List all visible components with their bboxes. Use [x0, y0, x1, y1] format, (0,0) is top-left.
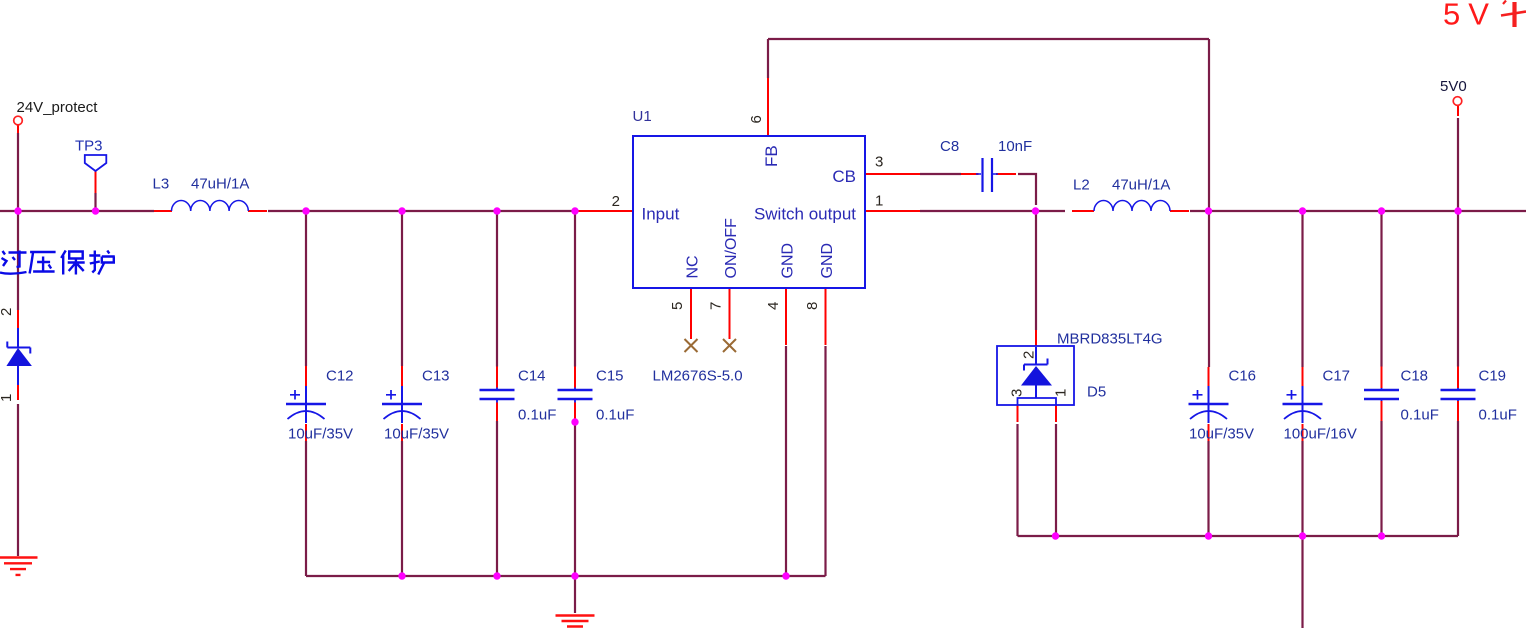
svg-text:47uH/1A: 47uH/1A — [191, 176, 249, 193]
svg-text:C15: C15 — [596, 368, 624, 385]
svg-text:47uH/1A: 47uH/1A — [1112, 177, 1170, 194]
svg-text:7: 7 — [708, 302, 725, 310]
svg-text:5V: 5V — [1443, 0, 1497, 32]
svg-text:C17: C17 — [1323, 368, 1351, 385]
svg-text:3: 3 — [1009, 389, 1026, 397]
svg-text:0.1uF: 0.1uF — [596, 407, 634, 424]
svg-text:GND: GND — [819, 243, 836, 279]
svg-text:6: 6 — [748, 115, 765, 123]
svg-text:L3: L3 — [153, 176, 170, 193]
svg-text:GND: GND — [780, 243, 797, 279]
svg-text:1: 1 — [875, 193, 883, 210]
svg-text:NC: NC — [685, 255, 702, 278]
svg-text:C14: C14 — [518, 368, 546, 385]
svg-text:100uF/16V: 100uF/16V — [1284, 426, 1357, 443]
svg-text:4: 4 — [765, 302, 782, 310]
svg-text:LM2676S-5.0: LM2676S-5.0 — [653, 368, 743, 385]
svg-text:1: 1 — [1053, 389, 1070, 397]
svg-text:Switch output: Switch output — [754, 205, 856, 224]
svg-text:2: 2 — [0, 308, 15, 316]
svg-text:2: 2 — [612, 193, 620, 210]
svg-text:ON/OFF: ON/OFF — [723, 218, 740, 279]
svg-text:FB: FB — [762, 145, 781, 167]
svg-text:C16: C16 — [1229, 368, 1257, 385]
svg-text:CB: CB — [832, 167, 856, 186]
svg-text:8: 8 — [804, 302, 821, 310]
svg-text:10uF/35V: 10uF/35V — [384, 426, 449, 443]
svg-text:10nF: 10nF — [998, 138, 1032, 155]
svg-text:10uF/35V: 10uF/35V — [1189, 426, 1254, 443]
svg-text:U1: U1 — [633, 108, 652, 125]
svg-text:2: 2 — [1021, 351, 1038, 359]
svg-text:C12: C12 — [326, 368, 354, 385]
svg-text:0.1uF: 0.1uF — [1479, 407, 1517, 424]
svg-text:C13: C13 — [422, 368, 450, 385]
svg-text:C8: C8 — [940, 138, 959, 155]
svg-text:5: 5 — [669, 302, 686, 310]
svg-text:1: 1 — [0, 394, 15, 402]
svg-text:5V0: 5V0 — [1440, 78, 1467, 95]
svg-text:MBRD835LT4G: MBRD835LT4G — [1057, 331, 1163, 348]
svg-text:24V_protect: 24V_protect — [17, 99, 99, 116]
svg-text:C18: C18 — [1401, 368, 1429, 385]
svg-text:TP3: TP3 — [75, 138, 103, 155]
svg-text:D5: D5 — [1087, 384, 1106, 401]
svg-text:C19: C19 — [1479, 368, 1507, 385]
svg-text:0.1uF: 0.1uF — [1401, 407, 1439, 424]
svg-text:0.1uF: 0.1uF — [518, 407, 556, 424]
svg-text:10uF/35V: 10uF/35V — [288, 426, 353, 443]
svg-text:3: 3 — [875, 154, 883, 171]
svg-text:L2: L2 — [1073, 177, 1090, 194]
svg-text:Input: Input — [642, 205, 680, 224]
